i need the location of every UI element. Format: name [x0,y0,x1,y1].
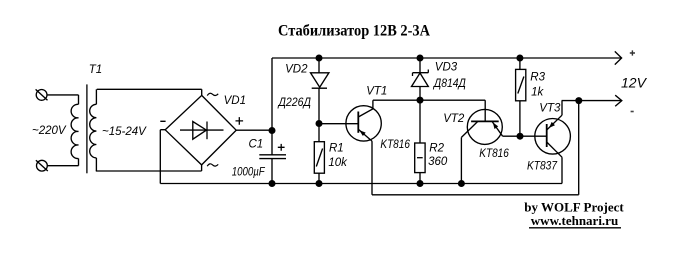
svg-text:VT1: VT1 [366,85,387,97]
svg-text:VD1: VD1 [224,95,246,107]
svg-text:VT3: VT3 [539,102,561,114]
svg-text:KT837: KT837 [527,161,558,173]
svg-text:Стабилизатор 12В 2-3А: Стабилизатор 12В 2-3А [278,22,431,39]
svg-text:1000µF: 1000µF [232,167,266,179]
svg-text:KT816: KT816 [479,148,509,160]
svg-text:VD2: VD2 [285,64,308,76]
svg-text:VT2: VT2 [443,113,465,125]
svg-text:R2: R2 [429,142,444,154]
svg-text:C1: C1 [249,139,264,151]
svg-text:360: 360 [428,156,448,168]
svg-text:KT816: KT816 [380,139,410,151]
svg-text:Д814Д: Д814Д [432,78,466,90]
svg-text:T1: T1 [89,64,102,76]
svg-text:R1: R1 [329,142,344,154]
svg-text:R3: R3 [530,72,545,84]
svg-text:~15-24V: ~15-24V [102,126,147,138]
svg-text:1k: 1k [531,86,544,98]
svg-text:www.tehnari.ru: www.tehnari.ru [531,213,618,228]
svg-text:VD3: VD3 [435,61,458,73]
svg-text:10k: 10k [328,157,348,169]
svg-text:Д226Д: Д226Д [277,97,311,109]
svg-text:~220V: ~220V [32,125,67,137]
svg-text:12V: 12V [621,75,648,91]
